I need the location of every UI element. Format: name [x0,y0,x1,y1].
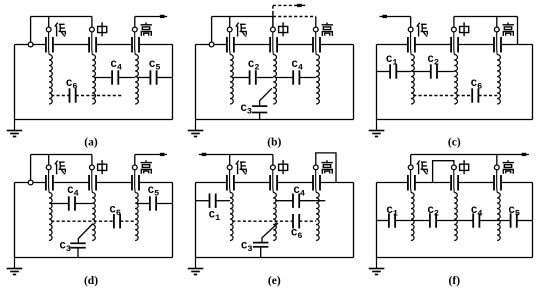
svg-text:C4: C4 [294,185,305,199]
svg-text:C2: C2 [428,205,439,219]
svg-text:C5: C5 [148,185,159,199]
svg-text:C2: C2 [248,59,259,73]
svg-text:C3: C3 [241,103,252,117]
svg-text:C6: C6 [471,78,482,92]
svg-text:(f): (f) [449,275,461,287]
svg-text:(b): (b) [267,137,281,149]
svg-text:C1: C1 [386,54,397,68]
svg-text:C4: C4 [67,185,78,199]
svg-text:C4: C4 [292,59,303,73]
svg-text:C3: C3 [60,240,71,254]
svg-text:(c): (c) [448,137,461,149]
svg-text:C4: C4 [471,205,482,219]
svg-text:C2: C2 [428,54,439,68]
svg-text:C1: C1 [387,205,398,219]
svg-text:C4: C4 [111,59,122,73]
svg-text:C5: C5 [149,59,160,73]
svg-text:(e): (e) [268,275,281,287]
svg-text:C5: C5 [509,205,520,219]
svg-text:(a): (a) [84,137,98,149]
svg-text:C6: C6 [66,78,77,92]
svg-text:C6: C6 [291,228,302,242]
svg-text:(d): (d) [84,275,98,287]
svg-text:C3: C3 [241,240,252,254]
svg-text:C1: C1 [209,210,220,224]
svg-text:C6: C6 [110,205,121,219]
